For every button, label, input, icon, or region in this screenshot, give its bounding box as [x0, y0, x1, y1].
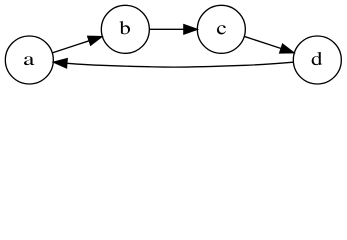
directed graph a -> b -> c -> d -> a	[0, 0, 347, 89]
node d circle	[293, 36, 341, 84]
node b label "b"	[119, 21, 130, 34]
node c circle	[197, 5, 245, 53]
edge d->a wire	[67, 62, 293, 67]
node a label "a"	[24, 56, 34, 65]
edge c->d wire	[244, 36, 281, 48]
edge a->b wire	[52, 41, 89, 53]
node b circle	[101, 5, 149, 53]
edge b->c wire	[150, 28, 184, 30]
edge a->b arrowhead	[88, 36, 102, 45]
node a circle	[5, 36, 53, 84]
edge d->a arrowhead	[54, 59, 68, 68]
edge b->c arrowhead	[184, 25, 197, 34]
edge c->d arrowhead	[280, 44, 294, 53]
node d label "d"	[312, 52, 323, 65]
node c label "c"	[217, 25, 226, 34]
